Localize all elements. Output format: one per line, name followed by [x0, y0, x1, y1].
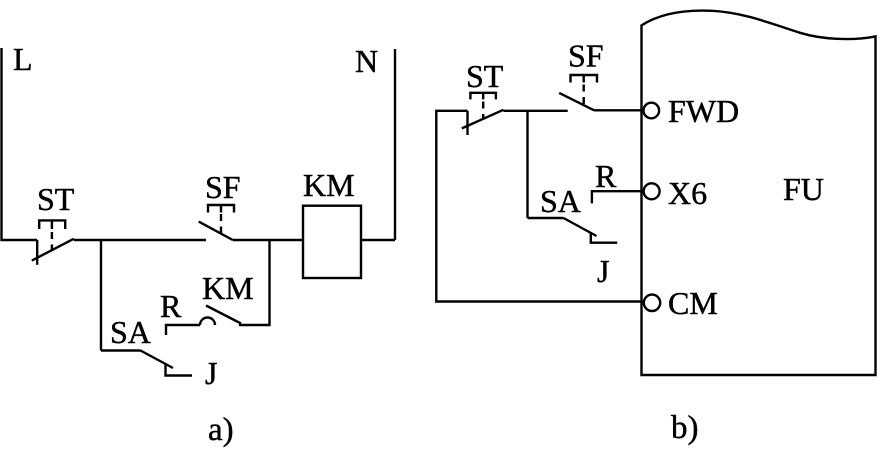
pushbutton SF b actuator dashed link [583, 85, 585, 108]
wire N rail [394, 49, 396, 240]
pushbutton SF NO blade [199, 222, 233, 240]
terminal CM circle [644, 295, 660, 311]
pushbutton SF cap [208, 205, 234, 213]
wire ST to SF [74, 239, 206, 241]
svg-text:b): b) [671, 410, 699, 446]
pushbutton ST b NC blade [462, 110, 504, 129]
node J contact [166, 365, 193, 376]
pushbutton ST NC contact blade [32, 239, 74, 261]
svg-text:SA: SA [110, 314, 151, 350]
svg-text:SA: SA [540, 183, 581, 219]
svg-text:ST: ST [37, 181, 75, 217]
terminal FWD circle [644, 103, 660, 119]
node R contact [166, 325, 200, 335]
svg-text:FU: FU [783, 171, 824, 207]
svg-text:ST: ST [466, 58, 504, 94]
svg-text:KM: KM [303, 167, 355, 203]
svg-text:X6: X6 [668, 175, 707, 211]
svg-text:SF: SF [568, 38, 604, 74]
svg-text:CM: CM [668, 285, 718, 321]
svg-text:R: R [595, 158, 617, 194]
terminal X6 circle [644, 183, 660, 199]
svg-text:a): a) [208, 412, 234, 448]
pushbutton SF b cap [571, 75, 598, 83]
wire KM coil to N rail [361, 239, 395, 241]
pushbutton ST b fixed contact bar [466, 111, 468, 135]
svg-text:R: R [160, 288, 182, 324]
coil KM rectangle [303, 206, 361, 278]
svg-text:N: N [355, 43, 378, 79]
svg-text:FWD: FWD [668, 93, 739, 129]
contact KM fixed hook [200, 318, 215, 325]
switch SA b common wire [528, 217, 564, 219]
wire L rail [2, 48, 38, 240]
switch SA common wire [101, 349, 141, 351]
svg-text:J: J [597, 253, 609, 289]
svg-text:KM: KM [202, 270, 254, 306]
svg-text:L: L [13, 41, 33, 77]
node J b contact [591, 232, 617, 242]
pushbutton SF actuator dashed link [220, 214, 222, 237]
wire KM contact to main [239, 240, 270, 325]
svg-text:SF: SF [205, 169, 241, 205]
wire SF to KM coil [233, 239, 303, 241]
pushbutton ST cap [39, 220, 65, 229]
wire ST b to SF b [503, 110, 567, 112]
pushbutton ST actuator dashed link [51, 232, 53, 251]
switch SA b blade [564, 218, 597, 236]
wire b left rail [436, 111, 644, 302]
svg-text:J: J [205, 355, 217, 391]
contact KM blade [206, 306, 241, 324]
pushbutton SF b NO blade [559, 93, 594, 110]
node R b contact wire to X6 [592, 191, 644, 203]
wire branch down to SA b [526, 111, 528, 218]
switch SA blade [141, 351, 174, 369]
wire SF b to FWD [594, 109, 644, 111]
wire branch down to SA [100, 240, 102, 351]
pushbutton ST b cap [470, 93, 496, 100]
pushbutton ST fixed contact bar [36, 240, 38, 265]
inverter FU outline [642, 11, 876, 375]
pushbutton ST b actuator dashed link [482, 102, 484, 120]
